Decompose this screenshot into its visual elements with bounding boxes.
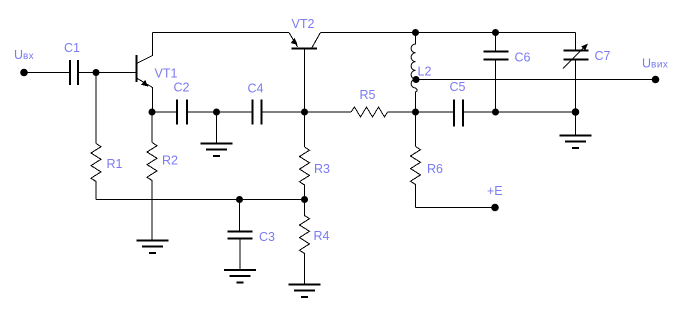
wire R2 top lead bbox=[151, 112, 153, 143]
wire C7 bottom lead bbox=[575, 61, 577, 136]
ground under R4 bbox=[289, 285, 321, 298]
resistor R6 bbox=[411, 147, 421, 208]
transistor VT2 bbox=[289, 33, 321, 113]
ground under C2 node bbox=[201, 144, 233, 157]
inductor L2 bbox=[411, 33, 417, 113]
wire C6 bottom lead bbox=[495, 61, 497, 113]
node junction C2/ground bbox=[213, 109, 220, 116]
wire C3 top lead bbox=[239, 200, 241, 231]
wire C7 top lead bbox=[575, 33, 577, 50]
svg-text:R1: R1 bbox=[107, 157, 123, 171]
ground under C3 bbox=[224, 270, 256, 283]
svg-text:C5: C5 bbox=[450, 80, 466, 94]
node junction C6 top on rail bbox=[492, 29, 499, 36]
wire R5 to node bbox=[388, 111, 416, 113]
node junction C7/ground on rail bbox=[572, 108, 580, 116]
node junction C1/R1/base bbox=[93, 69, 100, 76]
svg-text:C4: C4 bbox=[248, 82, 264, 96]
svg-text:C3: C3 bbox=[259, 230, 275, 244]
wire C4 to R5 bbox=[263, 111, 352, 113]
capacitor C5 bbox=[454, 100, 463, 127]
wire R6 to +E bbox=[416, 207, 496, 209]
wire C5 to C7 node bbox=[464, 111, 576, 113]
svg-text:+E: +E bbox=[487, 184, 503, 198]
node L2 tap bbox=[413, 76, 420, 83]
capacitor C4 bbox=[253, 100, 262, 125]
node junction emitter/C2/R2 bbox=[149, 109, 156, 116]
svg-text:R3: R3 bbox=[314, 162, 330, 176]
node junction C3/rail bbox=[236, 196, 243, 203]
svg-text:Uвих: Uвих bbox=[642, 57, 668, 71]
wire R6 top lead bbox=[415, 112, 417, 147]
svg-text:L2: L2 bbox=[418, 65, 432, 79]
capacitor C6 bbox=[484, 52, 509, 60]
node junction C4/R3/VT2 base bbox=[301, 109, 308, 116]
svg-text:R2: R2 bbox=[162, 154, 178, 168]
svg-text:R5: R5 bbox=[360, 88, 376, 102]
wire C2 to C4 bbox=[188, 111, 252, 113]
resistor R1 bbox=[91, 144, 101, 200]
node L2 top on rail bbox=[412, 29, 419, 36]
wire lower-left rail bbox=[96, 199, 305, 201]
wire top rail VT2 collector to C7 bbox=[321, 32, 576, 34]
ground under R2 bbox=[137, 241, 169, 254]
svg-text:C6: C6 bbox=[515, 51, 531, 65]
wire C2 left bbox=[152, 111, 176, 113]
svg-text:R4: R4 bbox=[314, 229, 330, 243]
capacitor C7 variable bbox=[563, 44, 589, 69]
node Uvx input terminal bbox=[20, 69, 28, 77]
svg-text:VT1: VT1 bbox=[155, 67, 178, 81]
svg-text:C7: C7 bbox=[595, 49, 611, 63]
svg-text:C1: C1 bbox=[64, 41, 80, 55]
svg-text:C2: C2 bbox=[174, 81, 190, 95]
node junction R3/R4/rail bbox=[301, 196, 308, 203]
wire C3 bottom lead bbox=[239, 240, 241, 271]
wire input to C1 bbox=[24, 72, 69, 74]
transistor VT1 bbox=[137, 33, 153, 113]
wire node to C5 bbox=[416, 111, 454, 113]
node junction R5/R6/C5/L2 bbox=[412, 109, 419, 116]
capacitor C2 bbox=[177, 100, 187, 125]
svg-text:R6: R6 bbox=[427, 162, 443, 176]
wire C6 top lead bbox=[495, 33, 497, 51]
capacitor C1 bbox=[70, 60, 78, 85]
capacitor C3 bbox=[228, 232, 253, 239]
resistor R2 bbox=[147, 143, 157, 241]
wire R3 top lead bbox=[304, 112, 306, 147]
wire ground stub bbox=[216, 112, 218, 144]
svg-text:VT2: VT2 bbox=[292, 17, 315, 31]
wire VT1 collector to VT2 emitter bbox=[153, 32, 290, 34]
node Uvyh output terminal bbox=[652, 76, 660, 84]
node +E terminal bbox=[491, 204, 499, 212]
wire junction down to R1 bbox=[95, 73, 97, 144]
resistor R5 bbox=[351, 107, 388, 117]
resistor R3 bbox=[300, 147, 310, 200]
svg-text:Uвх: Uвх bbox=[14, 48, 34, 62]
resistor R4 bbox=[300, 200, 310, 285]
wire L2 tap to output bbox=[416, 79, 656, 81]
wire C1 to VT1 base bbox=[79, 72, 136, 74]
ground under C7 node bbox=[560, 136, 592, 149]
node junction C6 bottom bbox=[492, 109, 499, 116]
